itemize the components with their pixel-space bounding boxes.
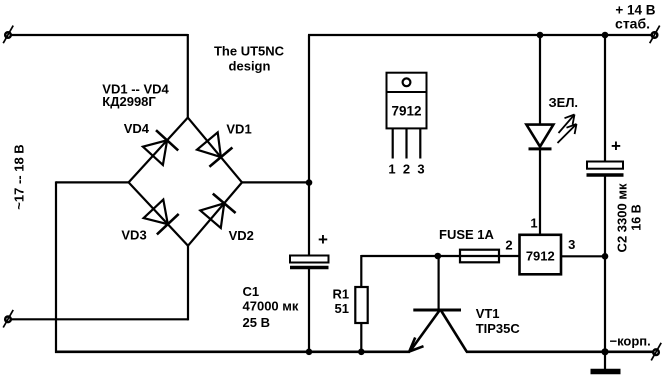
LED emission arrows	[558, 115, 577, 144]
wire: bridge side left-top	[129, 118, 188, 183]
capacitor C1 (47000uF 25V electrolytic)	[290, 256, 329, 268]
wire: C2 bottom lead	[604, 176, 606, 353]
junction: base branch on R1-fuse wire	[435, 253, 442, 260]
svg-text:VD1: VD1	[226, 122, 251, 137]
regulator package drawing (TO-220 7912)	[387, 73, 427, 129]
svg-text:C1: C1	[243, 284, 260, 299]
wire: C1 bottom lead	[308, 268, 310, 353]
svg-text:25 В: 25 В	[243, 315, 270, 330]
wire: U1 pin3 to C2 node	[561, 255, 605, 257]
wire: input top rail from upper input terminal	[11, 34, 188, 36]
LED HL1 (green)	[526, 125, 553, 149]
wire: C1/plus vertical riser	[308, 35, 310, 257]
wire: lower input terminal to bridge bottom drop	[11, 318, 188, 320]
junction: C2 / ground / output terminal node	[601, 348, 608, 355]
wire: ground rail right section from VT1 collector	[466, 350, 656, 353]
diode VD4	[143, 130, 178, 165]
svg-text:The UT5NC: The UT5NC	[214, 44, 285, 59]
resistor R1	[355, 287, 367, 323]
svg-text:~17 -- 18 В: ~17 -- 18 В	[12, 144, 27, 209]
svg-text:стаб.: стаб.	[615, 16, 650, 32]
junction: C2 branch on top rail	[602, 32, 609, 39]
svg-text:VD2: VD2	[229, 228, 254, 243]
svg-text:design: design	[229, 59, 271, 74]
svg-text:16 В: 16 В	[630, 204, 644, 230]
wire: LED top lead from positive rail	[539, 34, 541, 125]
diode VD1	[197, 132, 232, 166]
terminal: AC input upper	[3, 26, 13, 44]
wire: ground stub	[604, 352, 606, 369]
wire: positive top rail	[308, 34, 655, 36]
svg-text:FUSE 1A: FUSE 1A	[439, 227, 495, 242]
svg-text:7912: 7912	[391, 104, 421, 119]
svg-text:TIP35C: TIP35C	[476, 321, 521, 336]
svg-text:47000 мк: 47000 мк	[243, 299, 299, 314]
wire: left vertical down to ground rail	[55, 181, 57, 353]
svg-text:51: 51	[335, 301, 349, 316]
diode VD3	[144, 200, 179, 235]
terminal: -korp output	[651, 343, 661, 361]
ground symbol	[591, 369, 621, 374]
junction: R1 bottom on ground rail	[358, 349, 365, 356]
capacitor C2 (3300uF 16V electrolytic)	[587, 162, 624, 176]
svg-text:−корп.: −корп.	[610, 334, 651, 349]
junction: U1 pin3 / C2 node	[602, 253, 609, 260]
junction: C1 bottom on ground rail	[306, 349, 313, 356]
svg-text:VT1: VT1	[476, 306, 500, 321]
wire: bridge bottom vertex drop	[187, 246, 189, 321]
svg-text:VD4: VD4	[124, 121, 150, 136]
svg-text:+: +	[611, 137, 621, 156]
op-amp/regulator U1 7912 box	[520, 235, 562, 274]
wire: through fuse	[460, 255, 499, 257]
transistor VT1 TIP35C	[409, 310, 467, 352]
wire: ground rail left section to VT1 emitter	[55, 350, 410, 353]
wire: fuse feed wire	[437, 255, 520, 257]
svg-text:1: 1	[530, 216, 537, 231]
wire: bridge side top-right	[188, 118, 242, 183]
wire: bridge left vertex to left vertical	[56, 181, 129, 183]
svg-text:3: 3	[568, 237, 575, 252]
wire: drop from top rail to bridge top vertex	[187, 34, 189, 118]
wire: R1 vertical top lead	[360, 255, 362, 288]
svg-text:C2 3300 мк: C2 3300 мк	[615, 183, 630, 252]
svg-text:R1: R1	[333, 286, 350, 301]
pin legs of TO-220	[393, 129, 421, 159]
svg-text:1 2 3: 1 2 3	[388, 162, 424, 177]
svg-text:+: +	[318, 230, 328, 249]
junction: bridge right vertex node	[306, 179, 313, 186]
wire: C2 top lead	[604, 34, 606, 162]
wire: bridge right vertex to C1 node	[242, 181, 309, 183]
wire: U1 pin1 riser to LED	[539, 149, 541, 236]
wire: R1 top lead and base feed	[361, 255, 438, 257]
diode VD2	[200, 194, 235, 228]
svg-text:2: 2	[505, 238, 512, 253]
terminal: AC input lower	[3, 310, 13, 328]
wire: bridge side left-bottom	[129, 182, 188, 245]
terminal: +14V output	[650, 26, 660, 44]
svg-text:7912: 7912	[526, 249, 555, 264]
wire: R1 bottom lead	[360, 323, 362, 353]
fuse FUSE 1A	[460, 250, 499, 263]
junction: LED branch on top rail	[537, 32, 544, 39]
wire: VT1 base lead	[438, 255, 440, 310]
svg-text:ЗЕЛ.: ЗЕЛ.	[549, 95, 579, 110]
wire: bridge side bottom-right	[188, 182, 242, 245]
svg-text:КД2998Г: КД2998Г	[102, 94, 156, 109]
svg-text:VD3: VD3	[121, 227, 146, 242]
